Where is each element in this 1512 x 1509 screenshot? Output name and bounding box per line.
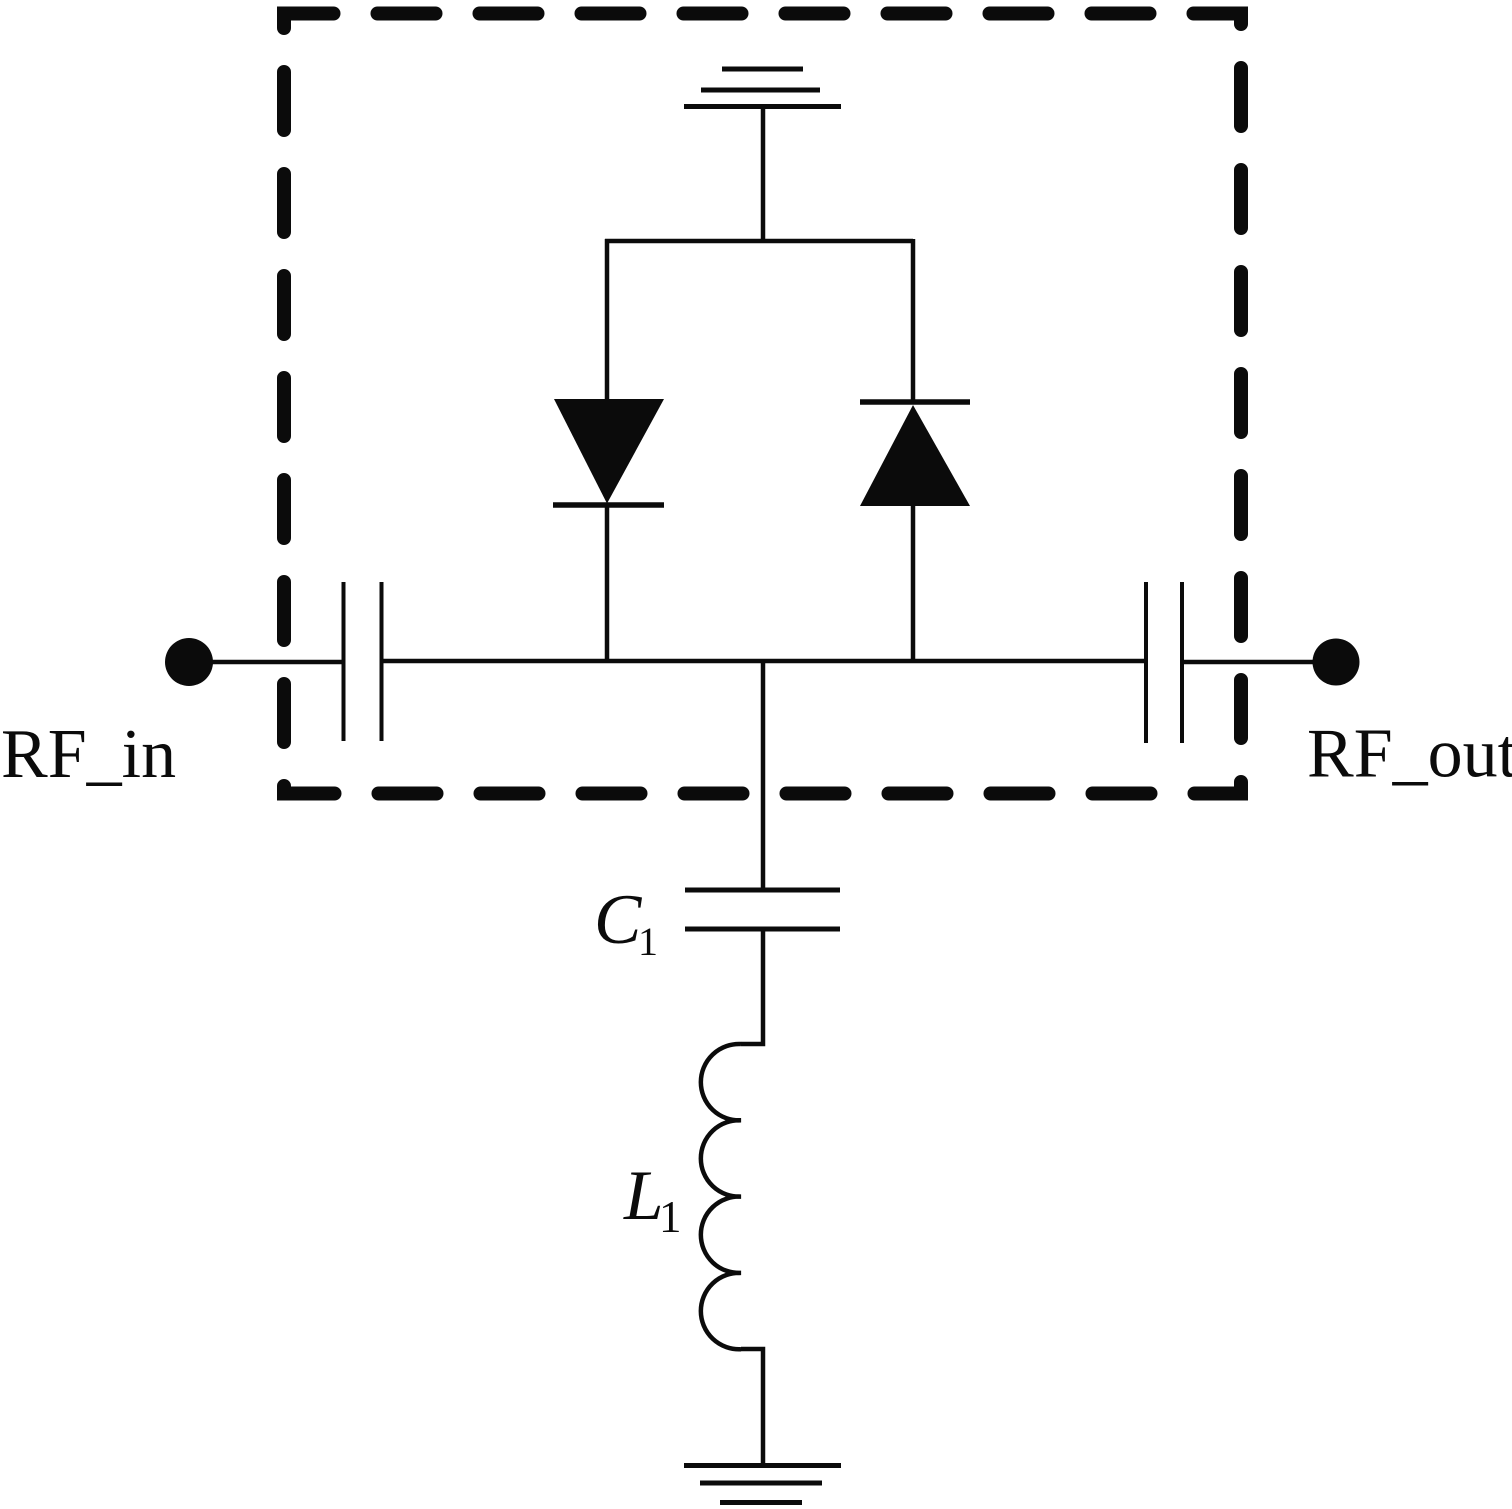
ground (top, inverted) xyxy=(684,69,841,107)
svg-text:C: C xyxy=(594,881,643,959)
wire: C1 to inductor L1 xyxy=(741,929,763,1044)
diode D1 (anode up, cathode down) xyxy=(554,399,664,504)
ground (bottom) xyxy=(684,1466,841,1503)
inductor L1 xyxy=(701,1044,741,1349)
svg-text:L: L xyxy=(623,1157,664,1235)
wire: capacitor to RF_out xyxy=(1182,660,1315,665)
svg-text:RF_out: RF_out xyxy=(1307,716,1512,793)
capacitor (input DC block) xyxy=(344,582,382,741)
RF_out terminal xyxy=(1313,639,1360,686)
diode D1 cathode bar xyxy=(553,502,664,508)
wire: top rail between diode branches xyxy=(605,239,913,244)
capacitor C1 xyxy=(685,890,840,929)
wire: RF_in to capacitor xyxy=(210,660,344,665)
svg-text:1: 1 xyxy=(659,1192,682,1242)
dashed enclosure box xyxy=(284,14,1241,794)
wire: left branch down to diode D1 xyxy=(605,239,610,400)
capacitor (output DC block) xyxy=(1146,582,1182,743)
wire: main rail xyxy=(382,659,1147,664)
wire: top ground to rail xyxy=(761,107,766,244)
svg-text:1: 1 xyxy=(638,919,658,964)
RF_in terminal xyxy=(165,638,213,686)
svg-text:RF_in: RF_in xyxy=(1,716,176,793)
diode D2 cathode bar xyxy=(860,399,970,405)
wire: D1 to main rail xyxy=(605,505,610,662)
wire: center tap down to C1 xyxy=(761,661,766,890)
wire: L1 to bottom ground xyxy=(741,1349,763,1466)
wire: right branch down to diode D2 xyxy=(911,239,916,403)
wire: D2 to main rail xyxy=(911,506,916,662)
diode D2 (anode down, cathode up) xyxy=(860,405,970,506)
